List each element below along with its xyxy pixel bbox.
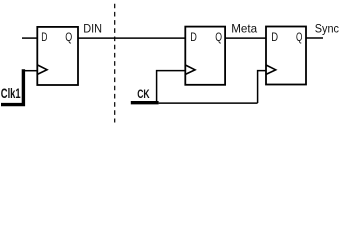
wire: Clk1 to clock pin of U1 <box>23 70 37 72</box>
wire: CK distribution to U2 clock <box>157 71 186 103</box>
clock domain boundary (dashed line) <box>114 4 116 123</box>
svg-text:DIN: DIN <box>83 22 102 36</box>
svg-text:CK: CK <box>137 88 150 101</box>
wire: Meta net from Q of U2 to D of U3 <box>225 37 266 39</box>
flip-flop U3 body <box>266 27 306 85</box>
svg-text:D: D <box>190 30 197 44</box>
svg-text:Meta: Meta <box>231 21 257 35</box>
clock chevron of U2 <box>185 65 195 74</box>
svg-text:Q: Q <box>296 30 302 44</box>
wire: Sync output from Q of U3 <box>306 37 323 39</box>
flip-flop U2 body <box>185 27 225 85</box>
wire: CK branch up to U3 clock <box>258 71 266 103</box>
clock chevron of U3 <box>266 65 276 74</box>
clock chevron of U1 <box>37 65 47 75</box>
wire: DIN net from Q of U1 to D of U2 <box>78 37 185 39</box>
wire: thick Clk1 stub <box>1 69 23 104</box>
svg-text:D: D <box>41 30 47 44</box>
svg-text:Sync: Sync <box>315 21 339 35</box>
wire: CK run to U3 branch <box>159 102 258 104</box>
svg-text:D: D <box>271 30 278 44</box>
wire: input to D of U1 <box>22 37 37 39</box>
svg-text:Q: Q <box>215 30 222 44</box>
svg-text:Q: Q <box>65 30 72 44</box>
wire: thick CK stub <box>131 101 159 104</box>
svg-text:Clk1: Clk1 <box>1 85 21 101</box>
flip-flop U1 body <box>37 27 78 85</box>
